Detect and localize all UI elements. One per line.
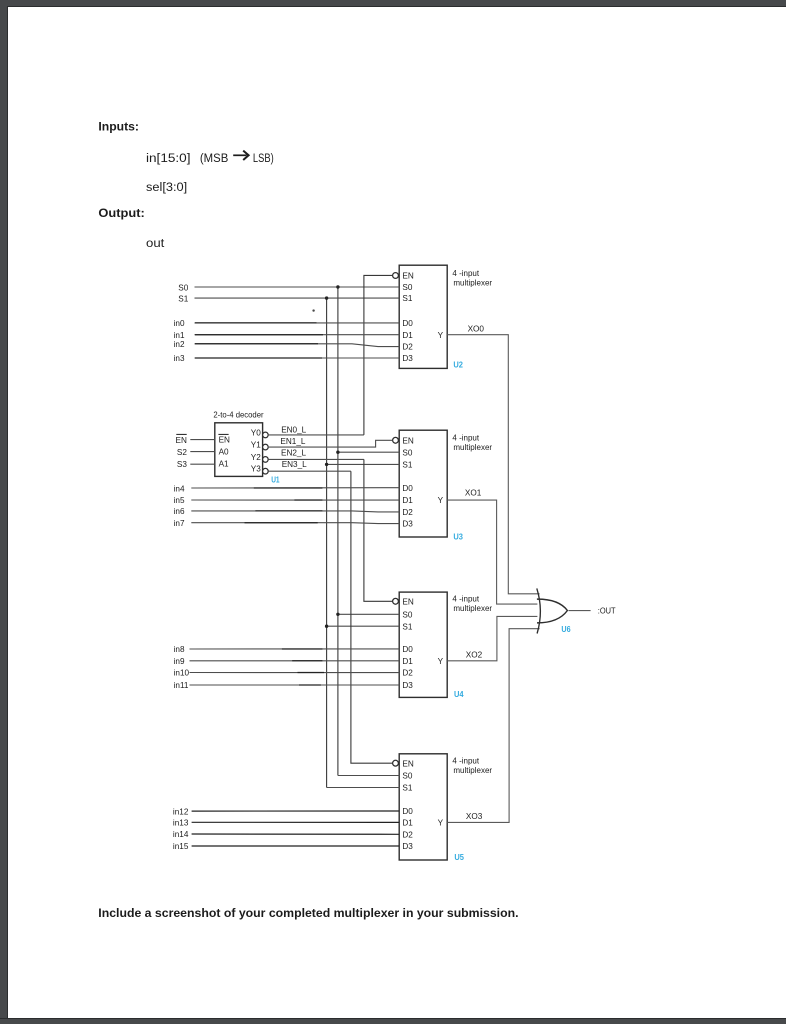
svg-text:D1: D1 [402,657,413,666]
svg-text:EN3_L: EN3_L [282,460,307,469]
net in7: label and wire to mux data pin [174,519,400,528]
svg-text:D0: D0 [402,319,413,328]
svg-text:Y0: Y0 [251,428,261,437]
4-input multiplexer U2 [393,265,493,368]
svg-text:S1: S1 [402,622,412,631]
net EN (decoder enable input) [176,434,215,444]
svg-text:D2: D2 [402,669,413,678]
svg-text:XO3: XO3 [466,812,483,821]
net in11: label and wire to mux data pin [174,681,400,690]
net in0: label and wire to mux data pin [174,319,400,328]
svg-text:in3: in3 [174,354,185,363]
net XO2: U4.Y to OR input 3 [447,616,537,660]
junction S1/U3 [325,463,328,466]
svg-text:S1: S1 [402,461,412,470]
svg-text:EN: EN [402,272,413,281]
svg-text:S2: S2 [177,448,187,457]
svg-text:Y3: Y3 [251,465,261,474]
svg-text:A0: A0 [219,448,229,457]
svg-text:4 -input: 4 -input [452,757,479,766]
svg-text:EN: EN [219,436,230,445]
svg-text:Y1: Y1 [251,441,261,450]
junction S1/U4 [325,625,328,628]
svg-text:(MSB: (MSB [200,151,228,165]
svg-text:Inputs:: Inputs: [98,120,139,134]
svg-text:Output:: Output: [98,206,144,220]
svg-text:S1: S1 [402,294,412,303]
svg-text:EN: EN [402,759,413,768]
svg-text:Y2: Y2 [251,453,261,462]
svg-text:in12: in12 [173,807,189,816]
svg-text:in0: in0 [174,319,185,328]
svg-text:in11: in11 [174,681,189,690]
net EN1_L: decoder Y1 to U3.EN [268,440,392,447]
svg-text:U4: U4 [454,690,464,699]
net OUT: OR output wire [569,610,591,612]
svg-text:S0: S0 [402,610,412,619]
svg-text:S3: S3 [177,460,187,469]
net in10: label and wire to mux data pin [174,669,400,678]
svg-text:S1: S1 [402,784,412,793]
svg-text:EN: EN [402,436,413,445]
net in8: label and wire to mux data pin [174,645,400,654]
junction S1/U2 feed [325,296,328,299]
svg-text:2-to-4 decoder: 2-to-4 decoder [213,411,264,420]
net XO0: U2.Y to OR input 1 [447,335,539,594]
svg-text:out: out [146,236,165,250]
2-to-4 decoder U1 [213,411,268,477]
net in2: label and wire to mux data pin [174,340,400,349]
net in6: label and wire to mux data pin [174,507,400,516]
svg-text:D2: D2 [402,343,413,352]
svg-text:EN: EN [402,597,413,606]
svg-text:in15: in15 [173,842,189,851]
svg-text:D0: D0 [402,484,413,493]
svg-text:4 -input: 4 -input [452,269,479,278]
svg-text:D3: D3 [402,842,413,851]
net in5: label and wire to mux data pin [174,496,400,505]
svg-text:multiplexer: multiplexer [453,443,492,452]
svg-text:D2: D2 [402,831,413,840]
svg-text:A1: A1 [219,460,229,469]
svg-text:in7: in7 [174,519,185,528]
svg-text:in5: in5 [174,496,185,505]
net S2 (sel2 -> A0) [177,448,215,457]
net S3 (sel3 -> A1) [177,460,215,469]
svg-text:U5: U5 [454,853,464,862]
net in3: label and wire to mux data pin [174,354,400,363]
svg-text:in1: in1 [174,331,185,340]
svg-text:multiplexer: multiplexer [453,278,492,287]
svg-text:D2: D2 [402,508,413,517]
svg-text:Include a screenshot of your c: Include a screenshot of your completed m… [98,906,518,920]
net in13: label and wire to mux data pin [173,819,399,828]
svg-text:Y: Y [438,657,444,666]
svg-text:S1: S1 [178,295,188,304]
svg-text:in2: in2 [174,340,185,349]
svg-text:LSB): LSB) [253,151,274,165]
svg-text:XO0: XO0 [468,324,485,333]
svg-text:XO1: XO1 [465,489,482,498]
net S1: label, horizontal to U2.S1, vertical bus, branches to U3/U4/U5 [178,295,399,788]
or-gate U6 (4-input OR) [537,588,568,633]
stray dot artifact [312,309,314,311]
svg-text:S0: S0 [402,283,412,292]
net in14: label and wire to mux data pin [173,830,399,839]
svg-text:in9: in9 [174,657,185,666]
net in12: label and wire to mux data pin [173,807,399,816]
net XO3: U5.Y to OR input 4 [447,629,539,823]
svg-text:S0: S0 [402,448,412,457]
svg-text:D3: D3 [402,520,413,529]
svg-text:in6: in6 [174,507,185,516]
svg-text:D0: D0 [402,807,413,816]
svg-text::OUT: :OUT [598,606,616,616]
svg-text:D0: D0 [402,645,413,654]
svg-text:Y: Y [438,819,444,828]
svg-text:in10: in10 [174,669,190,678]
svg-text:Y: Y [438,331,444,340]
svg-text:D1: D1 [402,331,413,340]
svg-text:4 -input: 4 -input [452,595,479,604]
svg-text:U2: U2 [453,361,463,370]
svg-text:S0: S0 [402,772,412,781]
net EN2_L: decoder Y2 to U4.EN [268,459,392,601]
net EN3_L: decoder Y3 to U5.EN [268,471,392,763]
svg-text:EN: EN [176,436,187,445]
svg-text:EN0_L: EN0_L [281,425,306,434]
net XO1: U3.Y to OR input 2 [447,500,537,604]
svg-text:Y: Y [438,496,444,505]
junction S0/U4 [336,613,339,616]
4-input multiplexer U5 [393,754,493,860]
junction S0/U3 [336,451,339,454]
net in9: label and wire to mux data pin [174,657,400,666]
svg-text:EN1_L: EN1_L [280,437,305,446]
net S0: label, horizontal to U2.S0, vertical bus, branches to U3/U4/U5 [178,283,399,775]
svg-text:sel[3:0]: sel[3:0] [146,180,187,194]
svg-text:in4: in4 [174,484,185,493]
svg-text:U1: U1 [271,475,280,484]
4-input multiplexer U3 [393,430,493,537]
svg-text:in[15:0]: in[15:0] [146,151,191,165]
svg-text:U3: U3 [453,532,463,541]
svg-text:D1: D1 [402,496,413,505]
svg-text:S0: S0 [178,283,188,292]
svg-text:in14: in14 [173,830,189,839]
net EN0_L: decoder Y0 to U2.EN [268,275,392,435]
4-input multiplexer U4 [393,592,493,697]
svg-text:EN2_L: EN2_L [281,448,306,457]
svg-text:4 -input: 4 -input [452,434,479,443]
svg-text:in8: in8 [174,645,185,654]
line in[15:0] (MSB -> LSB) [146,151,274,165]
svg-text:multiplexer: multiplexer [453,766,492,775]
junction S0/U2 feed [336,285,339,288]
svg-text:D1: D1 [402,819,413,828]
svg-text:in13: in13 [173,819,189,828]
net in15: label and wire to mux data pin [173,842,399,851]
net in4: label and wire to mux data pin [174,484,400,493]
net in1: label and wire to mux data pin [174,331,400,340]
svg-text:D3: D3 [402,354,413,363]
svg-text:multiplexer: multiplexer [453,604,492,613]
svg-text:D3: D3 [402,681,413,690]
svg-text:XO2: XO2 [466,650,483,659]
svg-text:U6: U6 [561,625,571,634]
